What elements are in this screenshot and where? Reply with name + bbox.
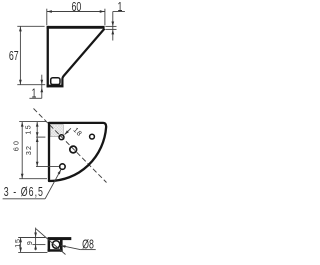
label Ø8: [82, 238, 94, 252]
svg-text:15: 15: [25, 124, 33, 135]
svg-text:1: 1: [117, 0, 122, 14]
hole C: [90, 134, 95, 139]
chain extension at hole D row: [36, 166, 59, 168]
svg-text:1: 1: [32, 87, 37, 101]
dimension 60 arrows: [47, 11, 52, 13]
hole D: [60, 164, 66, 170]
dimension 60 (left) line: [21, 122, 23, 179]
label shelf: [3, 198, 46, 200]
extension bottom row: [18, 251, 47, 253]
svg-text:15: 15: [14, 238, 22, 248]
box right wall: [60, 240, 63, 252]
section diagonal centerline: [36, 229, 66, 255]
label Ø8 leader with arrow: [61, 246, 80, 250]
dimension 67 extension lines: [17, 25, 44, 27]
dashed bend centerline: [34, 109, 107, 183]
svg-text:60: 60: [12, 139, 20, 151]
dimension 60 line: [47, 11, 105, 13]
dimension 60 (left) extension lines: [19, 121, 46, 123]
hole B (Ø8 in corner tab): [70, 146, 77, 153]
hole Ø8: [52, 241, 60, 249]
label leader with arrow: [45, 170, 61, 199]
label 3 - Ø6,5: [4, 186, 44, 200]
dimension 15 text: [14, 238, 22, 248]
dimension 1 bottom text: [32, 87, 37, 101]
part bottom flange: [47, 85, 64, 88]
box left wall: [48, 240, 51, 252]
hatched corner tab: [50, 125, 63, 137]
dimension 1 (bottom flange) leader and shelf: [41, 75, 43, 99]
dimension 67 line: [19, 27, 21, 85]
dimension 1 (top flange) extension lines: [105, 25, 116, 27]
svg-text:3 - Ø6,5: 3 - Ø6,5: [4, 186, 44, 200]
dimension 18 leader with arrow: [65, 128, 71, 134]
dimension 1 leader and shelf: [112, 12, 114, 41]
svg-text:32: 32: [25, 145, 33, 155]
hole A: [59, 135, 64, 140]
extension hole center row: [32, 244, 45, 246]
part diagonal web: [62, 29, 104, 85]
dimension 15 text: [25, 124, 33, 135]
svg-text:67: 67: [9, 50, 19, 64]
plate outline (quarter circle): [49, 123, 106, 181]
dimension 9 line with outside arrows: [35, 228, 37, 251]
dimension 9 text: [26, 241, 34, 245]
dimension 60 extension line left: [46, 9, 48, 26]
part top flange: [47, 26, 105, 29]
tab horizontal bar: [48, 237, 72, 240]
chain extension at hole A row: [36, 136, 45, 138]
dimension 60 text: [71, 0, 81, 14]
dimension 1 facing arrows: [112, 21, 114, 27]
dimension 18 text: [71, 126, 83, 138]
dimension 67 text: [9, 50, 19, 64]
extension top (bar top): [18, 237, 45, 239]
svg-text:9: 9: [26, 241, 34, 245]
label Ø8 shelf: [80, 249, 96, 251]
dimension 15 line: [20, 237, 22, 252]
dimension 1 text: [117, 0, 122, 14]
dimension 15/32 chain line: [36, 122, 38, 167]
dimension 60 (left) text: [12, 139, 20, 151]
dimension 32 text: [25, 145, 33, 155]
dimension 60 extension line right: [104, 9, 106, 26]
svg-text:60: 60: [71, 0, 81, 14]
part hem (rolled lip cross-section): [51, 78, 60, 85]
part left wall: [47, 26, 49, 88]
box bottom: [48, 249, 63, 252]
